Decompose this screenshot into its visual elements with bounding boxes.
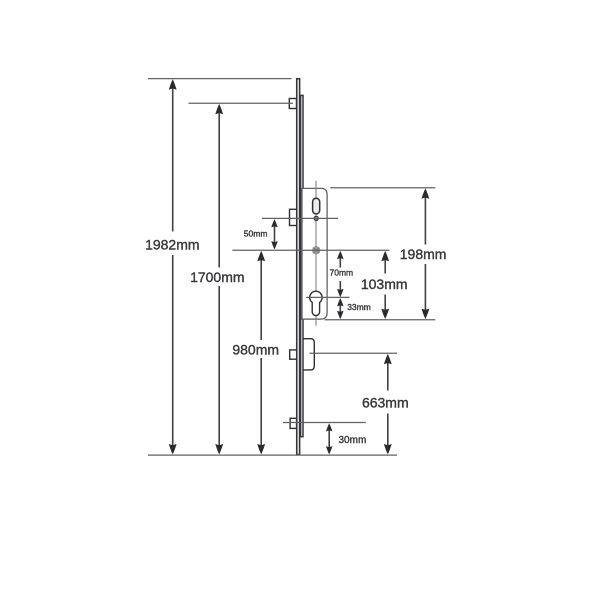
dim 663 arrow bottom: [384, 444, 392, 454]
backplate strip: [301, 95, 303, 436]
dim 103 arrow bottom: [381, 309, 389, 319]
svg-text:70mm: 70mm: [329, 268, 353, 278]
svg-text:50mm: 50mm: [244, 229, 268, 239]
ref line L2 (1700 top): [189, 102, 294, 104]
dim 70 shaft lower: [339, 281, 341, 291]
dim 198 shaft upper: [424, 197, 426, 245]
ref line L7 (198 bottom): [325, 319, 436, 321]
dim 50 arrow bottom: [271, 241, 277, 249]
dim 1700 shaft lower: [218, 286, 220, 447]
dim 1700 shaft upper: [218, 112, 220, 268]
dim 1700 arrow bottom: [215, 444, 223, 454]
ref line L3 (198 top): [330, 187, 435, 189]
dim 30 arrow bottom: [326, 446, 332, 454]
svg-text:663mm: 663mm: [362, 395, 409, 411]
dim 50 arrow top: [271, 219, 277, 227]
svg-text:33mm: 33mm: [347, 302, 371, 312]
dim 198 arrow top: [422, 188, 430, 198]
dim 70 shaft upper: [339, 257, 341, 268]
ref line L8 (663 top): [310, 352, 398, 354]
dim 663 arrow top: [384, 354, 392, 364]
svg-text:980mm: 980mm: [232, 341, 279, 357]
ref line L4 (50 top): [262, 217, 338, 219]
dim 198 arrow bottom: [422, 309, 430, 319]
dim 663 shaft lower: [387, 414, 389, 448]
center screw: [312, 246, 320, 254]
dim 70 arrow top: [337, 251, 343, 259]
dim 1982 arrow top: [169, 79, 177, 89]
dim 980 shaft upper: [260, 259, 262, 340]
dim 980 arrow top: [257, 251, 265, 261]
roller cam S3 latch cam: [290, 350, 297, 359]
dim 103 shaft lower: [384, 295, 386, 312]
dim 980 arrow bottom: [257, 444, 265, 454]
dim 33 arrow top: [337, 298, 343, 306]
ref line L1 (1982 top): [148, 78, 292, 80]
faceplate strip: [297, 79, 300, 455]
svg-text:1700mm: 1700mm: [190, 269, 244, 285]
dim 1982 arrow bottom: [169, 444, 177, 454]
small screw: [314, 216, 318, 220]
dim 50 shaft: [274, 225, 276, 243]
dim 1982 shaft lower: [172, 255, 174, 447]
ref line L10 (ground): [148, 454, 397, 456]
dim 30 shaft: [328, 429, 330, 448]
ref line L6 (keyhole): [306, 296, 349, 298]
dim 198 shaft lower: [424, 264, 426, 311]
dim 980 shaft lower: [260, 358, 262, 447]
dim 70 arrow bottom: [337, 289, 343, 297]
dim 1700 arrow top: [215, 104, 223, 114]
roller cam S1 top cam: [289, 99, 296, 109]
roller cam S4 bottom cam: [290, 418, 297, 428]
dim 30 arrow top: [326, 423, 332, 431]
svg-text:103mm: 103mm: [361, 276, 408, 292]
dim 33 shaft: [339, 304, 341, 313]
dim 103 arrow top: [381, 251, 389, 261]
euro cylinder keyhole: [310, 291, 322, 315]
roller cam S2 mid cam: [290, 209, 298, 225]
gearbox centerline: [315, 181, 317, 326]
dim 1982 shaft upper: [172, 87, 174, 232]
bottom latch case: [302, 339, 314, 370]
dim 663 shaft upper: [387, 362, 389, 391]
svg-text:30mm: 30mm: [339, 435, 367, 446]
svg-text:1982mm: 1982mm: [145, 236, 199, 252]
gearbox faceplate: [302, 188, 327, 319]
latch slot: [313, 198, 320, 214]
svg-text:198mm: 198mm: [400, 246, 447, 262]
dim 33 arrow bottom: [337, 311, 343, 319]
dim 103 shaft upper: [384, 259, 386, 274]
ref line L9 (30 top): [283, 422, 366, 424]
ref line L5 (centre): [232, 249, 389, 251]
